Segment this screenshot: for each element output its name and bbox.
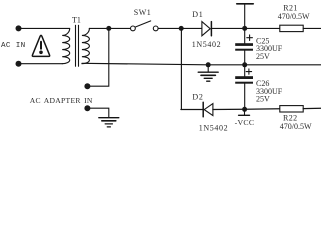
capacitor C25: [235, 28, 253, 64]
power +VCC rail symbol: [237, 4, 253, 29]
wire D2 anode row: [181, 109, 203, 111]
label R21: [283, 4, 298, 13]
transformer T1: [62, 25, 89, 66]
label C26 voltage: [256, 95, 270, 104]
wire vertical to D2 row: [180, 28, 182, 109]
node AC adapter bottom terminal: [84, 105, 90, 111]
label C26: [256, 79, 269, 88]
label R22 value: [280, 122, 312, 131]
svg-text:T1: T1: [72, 15, 81, 24]
wire switch to D1 node: [158, 27, 181, 29]
wire middle ground rail: [82, 63, 321, 65]
svg-text:470/0.5W: 470/0.5W: [278, 12, 310, 21]
resistor R21: [280, 25, 303, 31]
warning symbol: [32, 35, 49, 56]
wire primary bottom: [19, 63, 63, 65]
power -VCC rail symbol: [239, 109, 250, 115]
wire adapter bottom to ground: [90, 108, 109, 117]
wire D1 anode: [181, 27, 202, 29]
label AC ADAPTER IN: [30, 96, 93, 105]
label D1 value: [192, 40, 221, 49]
svg-text:470/0.5W: 470/0.5W: [280, 122, 312, 131]
svg-text:AC IN: AC IN: [1, 42, 26, 50]
svg-text:R22: R22: [283, 114, 298, 123]
ground middle: [198, 65, 218, 81]
label AC IN: [1, 42, 26, 50]
wire primary top: [19, 27, 70, 29]
label -VCC: [235, 118, 255, 127]
svg-text:1N5402: 1N5402: [192, 40, 221, 49]
svg-text:AC ADAPTER IN: AC ADAPTER IN: [30, 96, 93, 105]
diode D1: [202, 22, 212, 36]
label R22: [283, 114, 298, 123]
wire adapter vertical drop: [90, 28, 109, 86]
label D2: [192, 92, 203, 101]
svg-text:SW1: SW1: [134, 8, 152, 17]
wire secondary top to switch: [89, 27, 130, 29]
label D1: [192, 10, 203, 19]
node junction at adapter tap: [106, 26, 111, 31]
diode D2: [203, 102, 213, 116]
svg-text:25V: 25V: [256, 95, 270, 104]
label SW1: [134, 8, 152, 17]
switch SW1: [131, 21, 159, 31]
svg-text:1N5402: 1N5402: [199, 123, 228, 132]
ground adapter: [99, 118, 119, 127]
capacitor C26: [235, 65, 253, 110]
label C25 value: [256, 44, 283, 53]
node -VCC: [242, 107, 247, 112]
wire D2 cathode to -VCC node: [213, 108, 245, 110]
label T1: [72, 15, 81, 24]
node ground rail junction: [206, 62, 211, 67]
label D2 value: [199, 123, 228, 132]
node top rail split: [179, 26, 184, 31]
wire -VCC to R22: [245, 108, 280, 111]
node AC IN bottom terminal: [16, 61, 22, 67]
label C25: [256, 36, 269, 45]
svg-text:-VCC: -VCC: [235, 118, 255, 127]
svg-text:D2: D2: [192, 92, 203, 101]
resistor R22: [280, 106, 303, 112]
label C26 value: [256, 87, 283, 96]
label C25 voltage: [256, 52, 270, 61]
wire R22 to edge: [303, 107, 321, 109]
node cap midpoint: [242, 62, 247, 67]
label R21 value: [278, 12, 310, 21]
svg-text:25V: 25V: [256, 52, 270, 61]
node AC IN top terminal: [16, 25, 22, 31]
wire +VCC to R21: [245, 27, 280, 29]
wire R21 to edge: [303, 27, 321, 29]
svg-text:D1: D1: [192, 10, 203, 19]
node AC adapter top terminal: [84, 83, 90, 89]
wire D1 cathode to +VCC node: [212, 27, 245, 29]
node +VCC: [242, 26, 247, 31]
